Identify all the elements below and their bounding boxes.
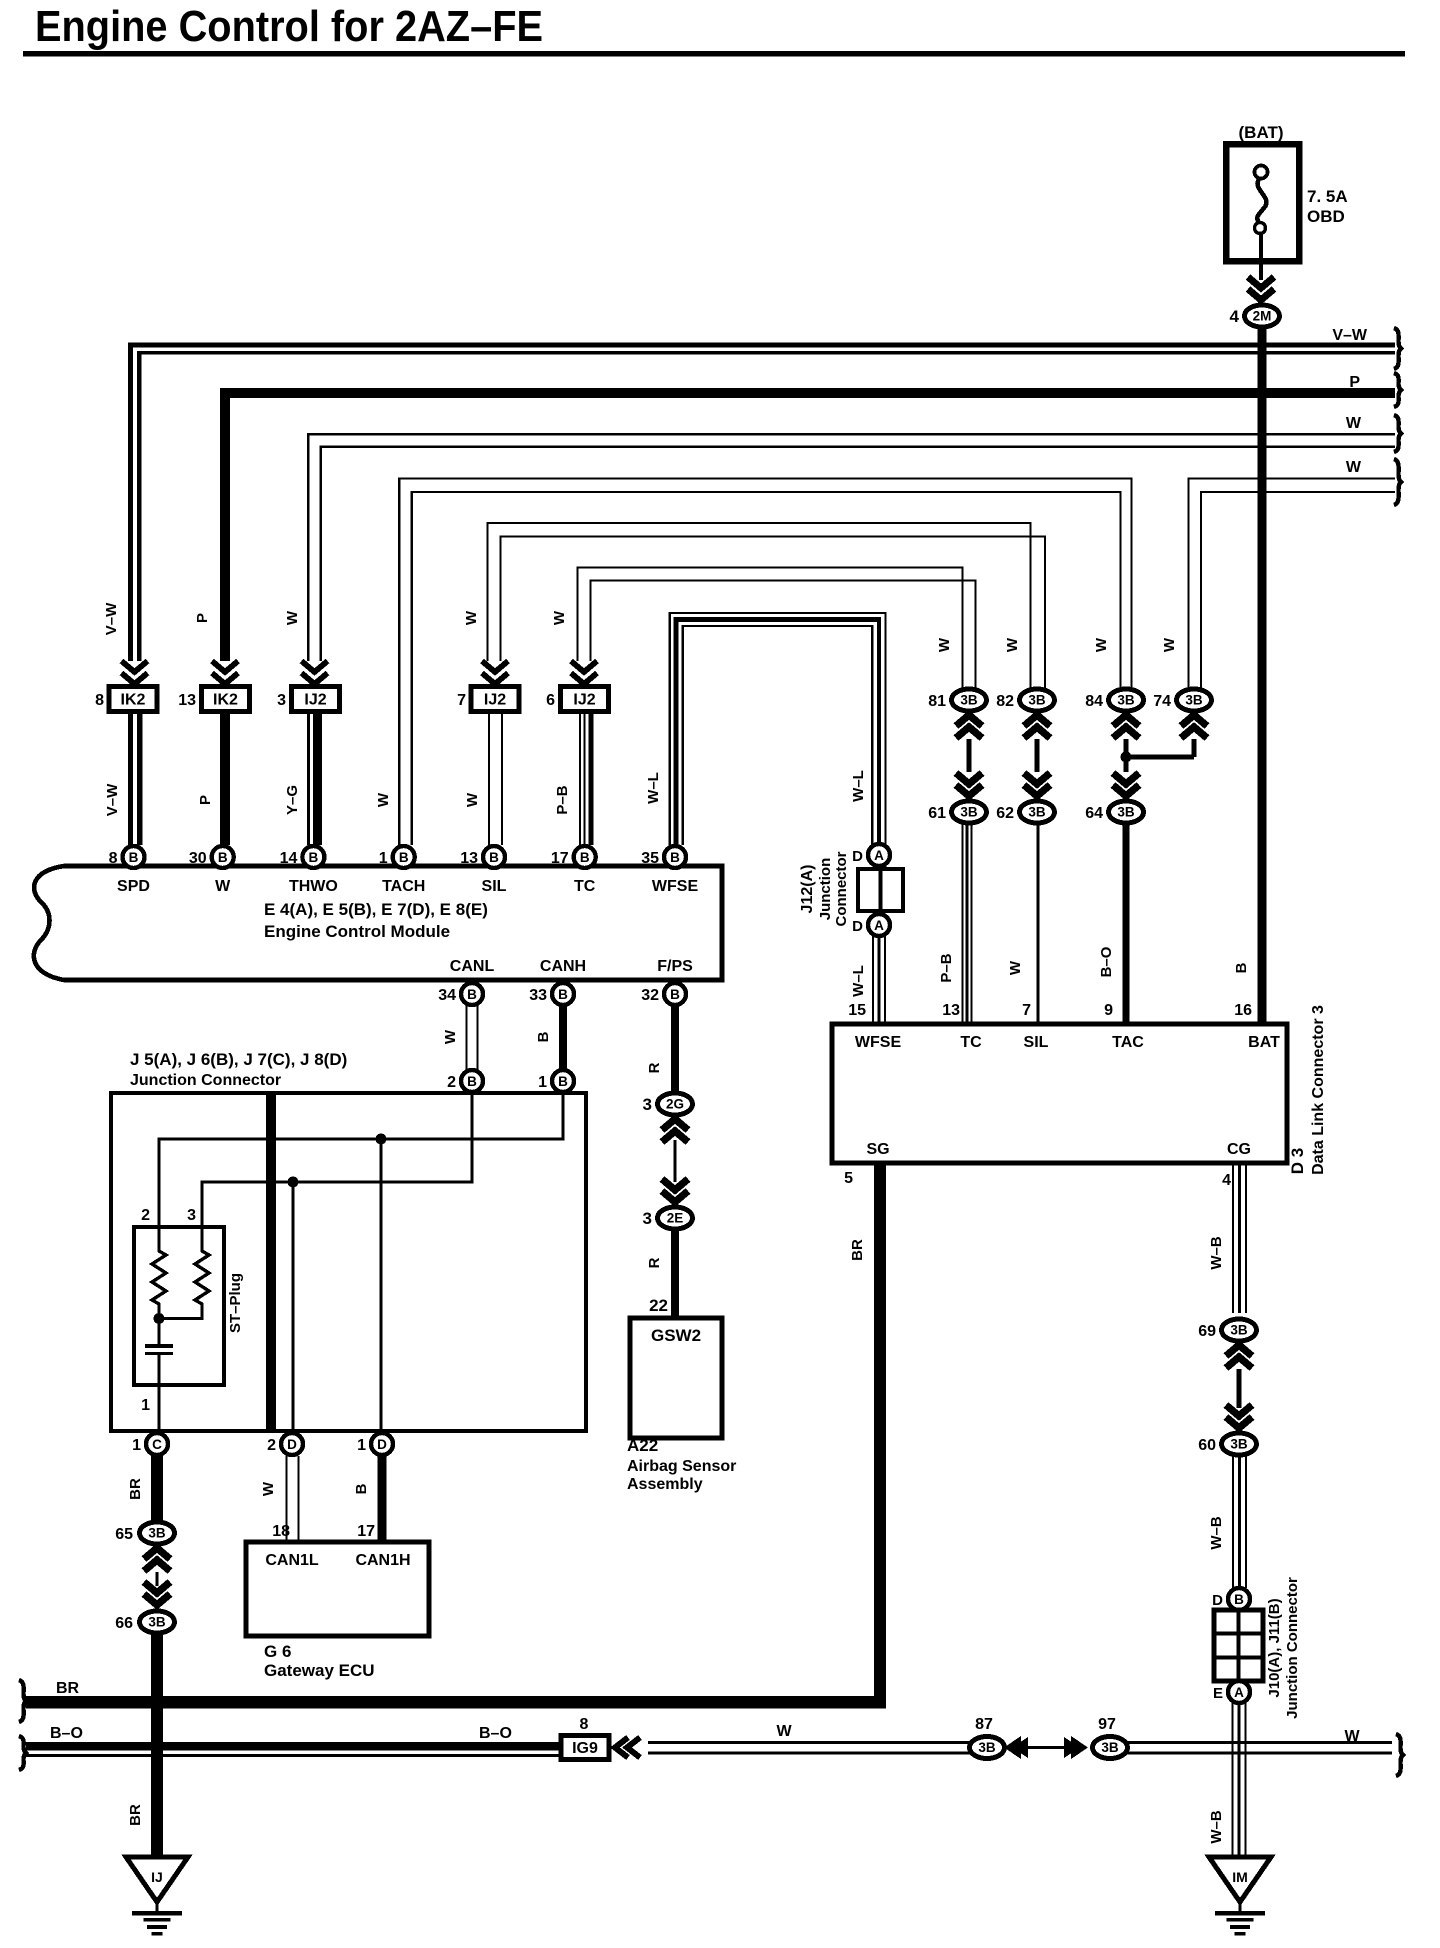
wire W (62 to DLC3 pin7)	[1037, 823, 1040, 1024]
svg-text:13: 13	[178, 692, 196, 709]
svg-text:18: 18	[272, 1523, 290, 1540]
junction connector J10/J11 box	[1214, 1610, 1263, 1681]
svg-text:BAT: BAT	[1248, 1034, 1280, 1051]
svg-text:P: P	[197, 795, 214, 805]
fuse 7.5A OBD box	[1226, 144, 1299, 261]
svg-text:B: B	[467, 1074, 477, 1089]
pin D (A) upper of J12	[852, 844, 890, 866]
svg-text:CAN1L: CAN1L	[265, 1552, 319, 1569]
continuation brace W bus3	[1394, 415, 1401, 452]
label B (CAN1H wire)	[353, 1483, 370, 1494]
wire V-W bus upper line	[128, 343, 1395, 662]
svg-text:W: W	[936, 637, 953, 652]
DLC3 label TAC	[1112, 1034, 1144, 1051]
connector 62 (3B)	[996, 801, 1054, 823]
svg-text:IJ2: IJ2	[573, 692, 595, 709]
continuation brace P	[1394, 373, 1401, 407]
svg-text:3B: 3B	[1185, 693, 1203, 708]
wire BR (66 to ground)	[151, 1632, 163, 1858]
connector 61 (3B)	[928, 801, 986, 823]
svg-text:TAC: TAC	[1112, 1034, 1144, 1051]
wire W-L (J12 to DLC3 pin15)	[872, 936, 886, 1024]
svg-text:IJ: IJ	[151, 1869, 163, 1885]
svg-text:ST–Plug: ST–Plug	[227, 1273, 244, 1333]
svg-text:3B: 3B	[960, 805, 978, 820]
DLC3 label SIL	[1024, 1034, 1049, 1051]
svg-text:D: D	[852, 848, 863, 865]
svg-text:82: 82	[996, 693, 1014, 710]
svg-text:3B: 3B	[978, 1740, 996, 1755]
wire B-O thick line	[26, 1742, 561, 1751]
wire W bus SIL-82 lower line	[499, 535, 1046, 688]
label W (DLC3 SIL wire)	[1007, 960, 1024, 975]
wire V-W bus lower line	[137, 351, 1395, 661]
svg-text:SPD: SPD	[117, 878, 150, 895]
ECM pin 30 (B) W	[189, 846, 234, 895]
pin 16 label	[1234, 1002, 1252, 1019]
connector 66 (3B)	[115, 1611, 174, 1633]
arrow into 66	[144, 1582, 170, 1605]
pin 2 (B) on J box	[447, 1070, 483, 1092]
ECM pin 35 (B) WFSE	[641, 846, 698, 895]
wire W-B (60 to J10)	[1232, 1456, 1247, 1588]
svg-text:65: 65	[115, 1526, 133, 1543]
svg-text:Assembly: Assembly	[627, 1476, 703, 1493]
svg-text:IG9: IG9	[572, 1740, 598, 1757]
wire B-O (64 to DLC3 pin9)	[1123, 823, 1130, 1024]
wire BR vertical (SG to bus)	[874, 1163, 886, 1708]
svg-text:B: B	[670, 987, 680, 1002]
svg-text:V–W: V–W	[1332, 327, 1368, 344]
label W-L (below J12)	[850, 965, 867, 997]
arrow into IJ2-7	[482, 661, 508, 684]
svg-text:IK2: IK2	[213, 692, 238, 709]
svg-text:Gateway ECU: Gateway ECU	[264, 1661, 375, 1680]
resistor R2 (left)	[152, 1246, 166, 1309]
DLC3 box (Data Link Connector 3)	[832, 1024, 1287, 1163]
label W above IJ2-6	[551, 610, 568, 625]
connector 13 IK2	[178, 687, 249, 712]
ST-Plug box	[134, 1227, 224, 1385]
svg-text:9: 9	[1104, 1002, 1113, 1019]
label P-B (DLC3 TC wire)	[938, 953, 955, 982]
svg-text:D: D	[1212, 1592, 1223, 1609]
svg-text:2G: 2G	[666, 1097, 684, 1112]
wire W CANL (34B to 2B)	[465, 1005, 478, 1070]
wire W-B (J10 to ground IM)	[1231, 1703, 1246, 1858]
svg-text:W: W	[1344, 1728, 1360, 1745]
svg-text:W: W	[442, 1029, 459, 1044]
ECM pin 1 (B) TACH	[379, 846, 426, 895]
wire W line lower	[648, 1752, 1392, 1755]
arrow down into 62	[1024, 773, 1050, 796]
svg-text:BR: BR	[849, 1239, 866, 1261]
wire Y-G to THWO pin	[307, 711, 322, 845]
svg-text:W: W	[215, 878, 231, 895]
arrow out of IG9 (left chevrons)	[615, 1738, 640, 1758]
connector 3 IJ2	[277, 687, 339, 712]
svg-text:IM: IM	[1232, 1869, 1248, 1885]
svg-text:SIL: SIL	[482, 878, 507, 895]
connector 4 (2M)	[1230, 305, 1280, 327]
svg-text:B: B	[309, 850, 319, 865]
label P-B (TC wire)	[554, 785, 571, 814]
wire B BAT vertical (2M to DLC3 pin16)	[1258, 327, 1267, 1024]
pin 5 label	[844, 1170, 853, 1187]
svg-text:D: D	[852, 918, 863, 935]
A22 caption	[627, 1436, 736, 1493]
wire R3 bottom elbow	[160, 1309, 202, 1319]
bus bar inside J box	[266, 1095, 276, 1429]
wire W-L bus WFSE-J12 inner thin	[682, 625, 874, 845]
svg-text:1: 1	[538, 1074, 547, 1091]
label P (right end)	[1349, 374, 1360, 391]
svg-text:Y–G: Y–G	[284, 785, 301, 815]
connector 82 (3B)	[996, 689, 1054, 711]
ECM pin 33 (B) CANH	[529, 958, 586, 1005]
DLC3 label TC	[960, 1034, 982, 1051]
svg-text:A22: A22	[627, 1436, 658, 1455]
label P (W pin wire)	[197, 795, 214, 805]
wire R (2E to GSW2)	[671, 1229, 679, 1318]
junction dot CANL	[288, 1177, 299, 1188]
wire P bus	[220, 388, 1395, 661]
svg-text:3: 3	[187, 1207, 196, 1224]
svg-text:R: R	[646, 1257, 663, 1268]
A22 Airbag Sensor Assembly box (GSW2)	[630, 1318, 722, 1438]
svg-text:F/PS: F/PS	[657, 958, 693, 975]
svg-text:B–O: B–O	[1098, 946, 1115, 977]
svg-text:W: W	[464, 792, 481, 807]
svg-text:BR: BR	[127, 1804, 144, 1826]
svg-text:Data Link Connector 3: Data Link Connector 3	[1310, 1005, 1327, 1175]
svg-text:BR: BR	[56, 1680, 80, 1697]
label B-O (mid)	[479, 1725, 512, 1742]
svg-text:8: 8	[95, 692, 104, 709]
svg-text:W: W	[1004, 637, 1021, 652]
label Y-G (THWO wire)	[284, 785, 301, 815]
fuse rating label 7.5A OBD	[1307, 187, 1348, 226]
label W above 74	[1161, 637, 1178, 652]
svg-text:E 4(A), E 5(B), E 7(D), E 8(E): E 4(A), E 5(B), E 7(D), E 8(E)	[264, 900, 488, 919]
wire CANH internal	[157, 1092, 564, 1246]
svg-text:60: 60	[1198, 1437, 1216, 1454]
svg-text:2E: 2E	[667, 1211, 684, 1226]
connector 74 (3B)	[1153, 689, 1211, 711]
wire P-B (61 to DLC3 pin13)	[961, 823, 972, 1024]
svg-text:84: 84	[1085, 693, 1103, 710]
label B-O (DLC3 TAC wire)	[1098, 946, 1115, 977]
continuation brace B-O	[19, 1736, 26, 1770]
svg-text:BR: BR	[127, 1478, 144, 1500]
ground IM	[1209, 1857, 1271, 1936]
label R (F/PS wire)	[646, 1062, 663, 1073]
label BR (below B-O)	[127, 1804, 144, 1826]
label B (BAT wire)	[1233, 962, 1250, 973]
svg-text:3: 3	[643, 1095, 652, 1114]
label B (CANH wire)	[535, 1031, 552, 1042]
wire W bus 74-offpage lower line	[1200, 491, 1395, 688]
svg-text:E: E	[1213, 1685, 1223, 1702]
svg-text:2M: 2M	[1253, 309, 1272, 324]
title underline	[23, 51, 1405, 57]
svg-text:J10(A), J11(B): J10(A), J11(B)	[1266, 1598, 1283, 1697]
svg-text:D: D	[287, 1437, 297, 1452]
svg-text:B: B	[129, 850, 139, 865]
label W (mid)	[776, 1723, 792, 1740]
svg-text:4: 4	[1222, 1172, 1231, 1189]
svg-text:3B: 3B	[1230, 1437, 1248, 1452]
svg-text:61: 61	[928, 805, 946, 822]
connector 64 (3B)	[1085, 801, 1143, 823]
arrow into 2E	[662, 1179, 688, 1202]
svg-text:3B: 3B	[1101, 1740, 1119, 1755]
svg-text:62: 62	[996, 805, 1014, 822]
wire W bus TACH-84 lower line	[410, 491, 1121, 845]
svg-text:69: 69	[1198, 1323, 1216, 1340]
continuation brace W bus4	[1394, 459, 1401, 505]
svg-text:Junction: Junction	[817, 858, 834, 921]
svg-text:B: B	[535, 1031, 552, 1042]
wire CANL internal	[200, 1092, 473, 1246]
svg-text:P: P	[1349, 374, 1360, 391]
wire W-L bus WFSE-J12 mid thick	[674, 617, 882, 845]
svg-text:1: 1	[132, 1437, 141, 1454]
label W above IJ2-7	[463, 610, 480, 625]
svg-text:16: 16	[1234, 1002, 1252, 1019]
pin 22 label	[649, 1296, 668, 1315]
svg-text:B–O: B–O	[50, 1725, 83, 1742]
label V-W above IK2-8	[103, 602, 120, 635]
connector 6 IJ2	[546, 687, 608, 712]
wire branch to 74	[1126, 739, 1196, 759]
svg-text:3B: 3B	[1117, 805, 1135, 820]
svg-text:1: 1	[357, 1437, 366, 1454]
DLC3 label CG	[1227, 1141, 1251, 1158]
wire W (2D to CAN1L)	[285, 1456, 299, 1542]
svg-text:32: 32	[641, 987, 659, 1004]
wire 87 to 97	[1020, 1746, 1075, 1749]
capacitor C1	[145, 1344, 173, 1355]
svg-text:64: 64	[1085, 805, 1103, 822]
arrow into 2M connector	[1248, 277, 1274, 300]
wire to pin 2D	[291, 1182, 294, 1430]
svg-text:D 3: D 3	[1288, 1148, 1307, 1174]
J5-J8 caption	[130, 1050, 347, 1089]
svg-text:R: R	[646, 1062, 663, 1073]
J12 caption rotated	[799, 851, 850, 926]
svg-text:B: B	[1234, 1592, 1244, 1607]
svg-text:6: 6	[546, 692, 555, 709]
svg-text:W: W	[375, 792, 392, 807]
wire W bus to IJ2-3 lower line	[320, 446, 1396, 662]
wire 81 to 61	[967, 739, 972, 772]
svg-text:3B: 3B	[1028, 805, 1046, 820]
label CAN1L	[265, 1552, 319, 1569]
junction dot resistors	[154, 1313, 165, 1324]
junction dot CANH	[376, 1134, 387, 1145]
svg-text:30: 30	[189, 850, 207, 867]
svg-text:34: 34	[438, 987, 456, 1004]
svg-text:3B: 3B	[1117, 693, 1135, 708]
svg-text:WFSE: WFSE	[855, 1034, 902, 1051]
svg-text:A: A	[1234, 1685, 1244, 1700]
pin 17 label	[357, 1523, 375, 1540]
label BR (SG wire)	[849, 1239, 866, 1261]
wire 2G to 2E	[673, 1140, 676, 1182]
label W (right)	[1344, 1728, 1360, 1745]
wire 69 to 60	[1237, 1369, 1242, 1408]
pin 8 label (IG9)	[580, 1716, 589, 1733]
svg-text:SG: SG	[866, 1141, 889, 1158]
label W-B (upper)	[1208, 1236, 1225, 1270]
svg-text:B: B	[558, 987, 568, 1002]
label W-L (WFSE wire)	[645, 772, 662, 804]
svg-text:TACH: TACH	[382, 878, 425, 895]
wire W bus TACH-84 upper line	[398, 477, 1133, 845]
wire W to SIL pin	[488, 711, 503, 845]
svg-text:W–L: W–L	[850, 770, 867, 802]
svg-text:P–B: P–B	[554, 785, 571, 814]
svg-text:66: 66	[115, 1615, 133, 1632]
svg-text:SIL: SIL	[1024, 1034, 1049, 1051]
connector 97 (3B)	[1093, 1716, 1128, 1759]
arrow up into 81	[956, 715, 982, 738]
svg-text:C: C	[152, 1437, 162, 1452]
connector 3 (2G)	[643, 1093, 693, 1142]
fuse element symbol	[1255, 166, 1268, 234]
wire BR (1C to 65)	[151, 1456, 163, 1523]
wire W bus TC-81 lower line	[589, 579, 976, 688]
label B-O (left)	[50, 1725, 83, 1742]
svg-text:B: B	[489, 850, 499, 865]
svg-text:B: B	[218, 850, 228, 865]
svg-text:14: 14	[280, 850, 298, 867]
pin 9 label	[1104, 1002, 1113, 1019]
svg-text:B: B	[558, 1074, 568, 1089]
svg-text:1: 1	[379, 850, 388, 867]
svg-text:V–W: V–W	[103, 602, 120, 635]
wire BR bus	[26, 1696, 886, 1709]
svg-text:3: 3	[277, 692, 286, 709]
svg-text:CG: CG	[1227, 1141, 1251, 1158]
svg-text:(BAT): (BAT)	[1239, 123, 1284, 142]
svg-text:B: B	[467, 987, 477, 1002]
label W (right end, bus4)	[1346, 459, 1362, 476]
wire R F/PS (32B to 2G)	[671, 1005, 679, 1092]
svg-text:CANH: CANH	[540, 958, 586, 975]
svg-text:Airbag Sensor: Airbag Sensor	[627, 1458, 736, 1475]
svg-text:W: W	[1346, 459, 1362, 476]
wire V-W to SPD pin	[128, 711, 142, 845]
arrow up into 84	[1113, 715, 1139, 738]
svg-text:W: W	[1346, 415, 1362, 432]
ECM pin 13 (B) SIL	[460, 846, 506, 895]
wire 82 to 62	[1035, 739, 1040, 772]
svg-text:WFSE: WFSE	[652, 878, 699, 895]
svg-text:W: W	[284, 610, 301, 625]
ECM pin 8 (B) SPD	[109, 846, 150, 895]
wire W bus to IJ2-3 upper line	[307, 433, 1395, 661]
svg-text:Junction Connector: Junction Connector	[130, 1072, 281, 1089]
svg-text:22: 22	[649, 1296, 668, 1315]
label W (TACH wire)	[375, 792, 392, 807]
pin 13 label	[942, 1002, 960, 1019]
pin 4 label	[1222, 1172, 1231, 1189]
svg-text:Junction Connector: Junction Connector	[1284, 1577, 1301, 1719]
label W (CANL wire)	[442, 1029, 459, 1044]
svg-text:A: A	[874, 848, 884, 863]
svg-text:W–B: W–B	[1208, 1236, 1225, 1270]
svg-text:Engine Control for 2AZ–FE: Engine Control for 2AZ–FE	[35, 2, 543, 51]
svg-text:15: 15	[848, 1002, 866, 1019]
svg-text:G 6: G 6	[264, 1642, 291, 1661]
svg-text:2: 2	[447, 1074, 456, 1091]
svg-text:B: B	[1233, 962, 1250, 973]
svg-text:13: 13	[942, 1002, 960, 1019]
label V-W (SPD wire)	[104, 783, 121, 816]
arrow into IJ2-6	[571, 661, 597, 684]
label W above 84	[1093, 637, 1110, 652]
svg-text:Engine Control Module: Engine Control Module	[264, 922, 450, 941]
svg-text:IK2: IK2	[121, 692, 146, 709]
wire capacitor to pin 1C	[157, 1355, 160, 1430]
wire R2 bottom to junction	[157, 1309, 160, 1320]
wire W bus 74-offpage upper line	[1187, 477, 1395, 688]
svg-text:3B: 3B	[960, 693, 978, 708]
pin 1 (C) on J box	[132, 1433, 168, 1455]
wire W line upper	[648, 1741, 1392, 1744]
svg-text:4: 4	[1230, 307, 1240, 326]
svg-text:33: 33	[529, 987, 547, 1004]
arrow up into 69	[1226, 1345, 1252, 1368]
svg-text:87: 87	[975, 1716, 993, 1733]
svg-text:2: 2	[267, 1437, 276, 1454]
svg-text:35: 35	[641, 850, 659, 867]
title: Engine Control for 2AZ-FE	[35, 2, 543, 51]
svg-text:2: 2	[141, 1207, 150, 1224]
svg-text:3: 3	[643, 1209, 652, 1228]
svg-text:W: W	[1093, 637, 1110, 652]
G6 caption	[264, 1642, 375, 1680]
label W above 82	[1004, 637, 1021, 652]
wire fuse to 2M	[1259, 233, 1263, 280]
svg-text:IJ2: IJ2	[484, 692, 506, 709]
wire B-O thin line	[26, 1754, 561, 1757]
continuation brace BR	[19, 1680, 26, 1722]
wire 65 to 66	[155, 1572, 158, 1586]
pin D (A) lower of J12	[852, 914, 890, 936]
ECM pin 34 (B) CANL	[438, 958, 494, 1005]
svg-text:J12(A): J12(A)	[799, 865, 816, 914]
svg-text:7: 7	[1022, 1002, 1031, 1019]
ground IJ	[126, 1857, 188, 1936]
pin 1 (B) on J box	[538, 1070, 574, 1092]
svg-text:B: B	[353, 1483, 370, 1494]
svg-text:CAN1H: CAN1H	[355, 1552, 410, 1569]
svg-text:W–B: W–B	[1208, 1810, 1225, 1844]
svg-text:7: 7	[457, 692, 466, 709]
arrow up into 82	[1024, 715, 1050, 738]
svg-text:TC: TC	[574, 878, 596, 895]
wire B (1D to CAN1H)	[378, 1456, 387, 1542]
connector 65 (3B)	[115, 1522, 174, 1571]
svg-text:Connector: Connector	[833, 851, 850, 926]
arrow down into 61	[956, 773, 982, 796]
svg-text:W: W	[551, 610, 568, 625]
svg-text:W: W	[1161, 637, 1178, 652]
resistor pin label 3	[187, 1207, 196, 1224]
